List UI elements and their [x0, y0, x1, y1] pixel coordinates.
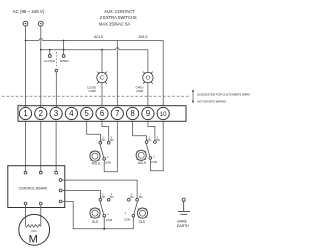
wire board pin bottom 1 to motor [25, 205, 27, 226]
svg-text:10: 10 [160, 112, 167, 118]
motor winding [26, 225, 41, 228]
wire CLOSE stem [49, 50, 51, 55]
svg-text:CONTROL BOARD: CONTROL BOARD [19, 187, 48, 191]
arrow across separator [192, 89, 194, 103]
terminal 8 [127, 107, 139, 119]
wire line A corner down to terminal 10 [162, 41, 164, 107]
wire line A (y=40.5) with hop over x=41 [26, 39, 164, 41]
svg-text:3: 3 [54, 109, 58, 118]
node line A branch OPEN [63, 40, 65, 42]
lamp C (close lamp) [97, 72, 107, 84]
wire lamp O down to terminal 9 [147, 83, 149, 106]
svg-text:NC: NC [139, 195, 143, 199]
svg-text:NO: NO [110, 195, 114, 199]
svg-text:ACLS: ACLS [94, 35, 104, 39]
svg-text:AOLS: AOLS [138, 35, 148, 39]
svg-text:COM: COM [151, 160, 157, 164]
contact OPEN [62, 55, 65, 58]
svg-text:1: 1 [107, 212, 109, 216]
svg-text:BARE: BARE [177, 219, 187, 223]
terminal 6 [96, 107, 108, 119]
terminal 3 [50, 107, 62, 119]
wire OPEN branch vertical [63, 41, 65, 55]
lamp O (open lamp) [143, 72, 153, 84]
svg-text:6: 6 [100, 109, 104, 118]
node line B lamp C stem [101, 49, 103, 51]
terminal 2 [35, 107, 47, 119]
svg-text:LAMP: LAMP [136, 89, 144, 93]
svg-text:1: 1 [23, 109, 27, 118]
wire terminal 10 to ACLS COM [150, 122, 163, 171]
svg-text:SUGGESTED FOR CUSTOMER'S WIRIN: SUGGESTED FOR CUSTOMER'S WIRING [197, 92, 250, 96]
earth symbol [178, 198, 190, 214]
svg-text:C: C [100, 76, 104, 82]
wire line A branch down to terminal 7 [116, 41, 118, 107]
wire board pin1 to CLS NC [62, 180, 137, 198]
svg-text:NC: NC [101, 195, 105, 199]
svg-text:OPEN: OPEN [136, 86, 144, 90]
AC terminal L [23, 21, 28, 26]
svg-text:NO: NO [110, 138, 114, 142]
terminal 9 [142, 107, 154, 119]
svg-text:5: 5 [85, 109, 90, 118]
terminal 10 [157, 107, 169, 119]
svg-text:LAMP: LAMP [89, 89, 97, 93]
terminal 7 [111, 107, 123, 119]
svg-text:NC: NC [101, 138, 105, 142]
svg-text:OLS: OLS [92, 220, 98, 224]
terminal 1 [19, 107, 31, 119]
switch OLS [90, 193, 114, 225]
wire AC-L down to terminal 1 [25, 26, 27, 107]
svg-text:MAX 250VAC 5A: MAX 250VAC 5A [99, 21, 130, 26]
motor M [19, 214, 50, 245]
board pin top 1 [24, 171, 27, 174]
board pin right 3 [59, 200, 62, 203]
switch AOLS [90, 136, 114, 166]
contact COM of pushbutton [55, 69, 58, 72]
wire terminal 6 to AOLS NO [102, 122, 109, 142]
board pin bottom 1 [24, 202, 27, 205]
svg-text:NO: NO [130, 195, 134, 199]
node line B CLOSE stem [49, 49, 51, 51]
switch ACLS [136, 136, 160, 165]
switch CLS (mirrored) [124, 193, 148, 225]
svg-text:CLOSE: CLOSE [87, 86, 96, 90]
terminal 4 [65, 107, 77, 119]
svg-text:ACLS: ACLS [138, 161, 146, 165]
svg-text:CLOSE: CLOSE [44, 59, 55, 63]
svg-text:NO: NO [156, 138, 160, 142]
svg-text:COM: COM [106, 218, 112, 222]
board pin top 3 [55, 171, 58, 174]
wire terminal 8 to ACLS NC [133, 122, 147, 141]
svg-text:OPEN: OPEN [60, 59, 69, 63]
wire AC-N down to terminal 2 [40, 26, 42, 107]
wire board pin bottom 2 to motor [40, 205, 42, 226]
svg-text:1: 1 [153, 154, 155, 158]
terminal 5 [81, 107, 93, 119]
svg-text:8: 8 [130, 109, 134, 118]
wire lamp C stem [101, 50, 103, 73]
wire line B corner down to lamp O [147, 50, 149, 73]
motor tilde [31, 230, 37, 232]
node line A / wire x25 [25, 40, 27, 42]
mechanical link dashed [55, 52, 57, 67]
svg-text:7: 7 [115, 109, 119, 118]
svg-text:1: 1 [125, 211, 127, 215]
svg-text:NC: NC [148, 138, 152, 142]
svg-text:4: 4 [69, 109, 74, 118]
wire line B (y=49.7) with hop over x=117.3 [41, 48, 148, 50]
svg-text:1: 1 [107, 155, 109, 159]
svg-text:M: M [29, 234, 38, 246]
wire terminal 1 to board [25, 122, 27, 172]
node OLS COM on bus [103, 228, 105, 230]
wire terminal 7 to AOLS COM [104, 122, 117, 172]
wire board pin3 to COM bus [62, 202, 133, 229]
board pin right 1 [59, 179, 62, 182]
wire COM down to terminal 3 [55, 72, 57, 107]
control board [8, 166, 65, 208]
svg-text:O: O [146, 76, 150, 82]
wire lamp C down to terminal 6 [101, 83, 103, 106]
svg-text:2: 2 [39, 109, 43, 118]
svg-text:ACTUATOR'S WIRING: ACTUATOR'S WIRING [197, 99, 226, 103]
wire terminal 2 to board [40, 122, 42, 172]
svg-text:AC (95 ~ 245 V): AC (95 ~ 245 V) [13, 9, 45, 14]
wire terminal 3 to board [55, 122, 57, 172]
board pin top 2 [39, 171, 42, 174]
svg-text:COM: COM [124, 218, 130, 222]
svg-text:AOLS: AOLS [91, 162, 100, 166]
svg-text:COM: COM [105, 161, 111, 165]
contact CLOSE [48, 55, 51, 58]
wire OLS COM down to bus [103, 217, 105, 229]
wire terminal 5 to AOLS NC [87, 122, 101, 142]
board pin right 2 [59, 189, 62, 192]
wire terminal 9 to ACLS NO [148, 122, 155, 141]
dashed separator customer/actuator [2, 95, 190, 97]
wire board pin2 to OLS NC [62, 190, 101, 198]
board pin bottom 2 [39, 202, 42, 205]
node line B / wire x41 [40, 49, 42, 51]
AC terminal N [38, 21, 43, 26]
svg-text:9: 9 [146, 109, 150, 118]
svg-text:2 EXTRA SWITCHS: 2 EXTRA SWITCHS [100, 15, 137, 20]
svg-text:AUX. CONTACT: AUX. CONTACT [104, 9, 135, 14]
terminal strip box [18, 106, 186, 122]
svg-text:CLS: CLS [139, 220, 145, 224]
svg-text:EARTH: EARTH [177, 224, 189, 228]
node line B OPEN crossing [63, 49, 65, 51]
